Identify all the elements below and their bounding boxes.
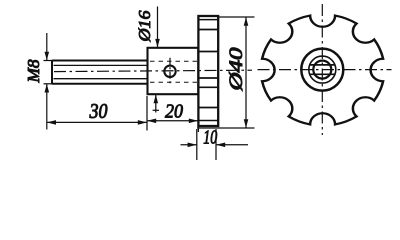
knurled disk side view rect xyxy=(198,16,218,126)
dimension 30 line xyxy=(47,121,147,123)
svg-text:Ø40: Ø40 xyxy=(226,47,247,92)
dimension 10 left extension line xyxy=(196,129,198,160)
dimension 10 line right segment xyxy=(216,144,248,146)
extension tick top shaft xyxy=(44,60,53,62)
svg-text:20: 20 xyxy=(165,101,183,123)
disk scallop line 2 xyxy=(198,29,218,31)
wheel front view outline (8 scalloped notches) xyxy=(262,16,383,125)
cylinder body rect xyxy=(148,48,199,94)
svg-text:M8: M8 xyxy=(24,59,43,84)
dimension Ø16 top arrow xyxy=(157,7,159,48)
hub middle circle xyxy=(309,56,336,83)
svg-text:30: 30 xyxy=(89,99,108,123)
disk scallop line 6 xyxy=(198,107,218,109)
hub outer circle xyxy=(301,49,343,91)
svg-text:Ø16: Ø16 xyxy=(135,10,154,43)
hub inner circle xyxy=(313,61,331,79)
dimension Ø40 top extension line xyxy=(219,16,255,18)
dimension Ø16 bottom arrow xyxy=(155,95,157,113)
wheel horizontal centerline xyxy=(258,69,392,71)
tick at end of Ø16 lower arrow line xyxy=(153,109,159,111)
dimension 10 line left segment xyxy=(181,144,197,146)
dimension 10 right extension line xyxy=(215,129,217,160)
wheel vertical centerline xyxy=(321,4,323,135)
wire main axis centerline left view xyxy=(54,70,252,71)
hidden line upper xyxy=(150,60,198,62)
disk scallop line 1 xyxy=(198,19,218,21)
dimension M8 vertical line with arrows xyxy=(46,33,48,130)
cross hole vertical centerline xyxy=(169,58,171,85)
extension line between 30 and 20 xyxy=(146,96,148,131)
dimension 20 line xyxy=(147,120,198,122)
disk scallop line 7 xyxy=(198,120,218,122)
hub chord line lower xyxy=(310,73,335,75)
dimension Ø40 vertical line with arrows xyxy=(245,17,247,128)
cross hole circle xyxy=(164,66,175,77)
disk scallop line 5 xyxy=(198,86,218,88)
disk scallop line 3 xyxy=(198,51,218,53)
hub chord line upper xyxy=(310,64,335,66)
thread minor diameter lines xyxy=(54,65,148,78)
hidden line lower xyxy=(150,81,198,83)
extension of disk left edge down xyxy=(197,126,199,132)
svg-text:10: 10 xyxy=(203,127,217,149)
threaded shaft side view outline xyxy=(52,61,148,84)
extension tick bottom shaft xyxy=(44,83,53,85)
dimension Ø40 bottom extension line xyxy=(197,127,255,129)
disk scallop line 4 xyxy=(198,77,218,79)
